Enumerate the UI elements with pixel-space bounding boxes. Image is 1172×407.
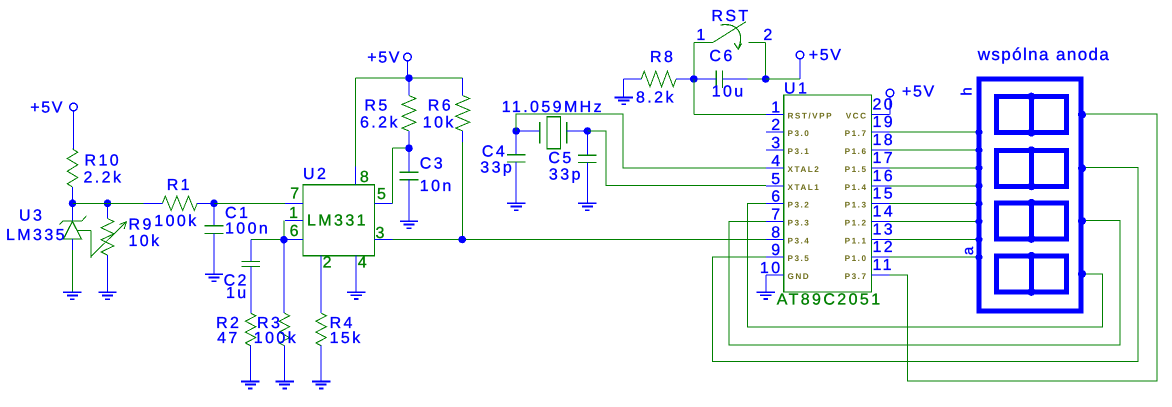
display digit 2 — [996, 146, 1086, 190]
op-amp U1 AT89C2051 box — [777, 81, 883, 309]
ground (C3) — [400, 221, 418, 228]
node junction C6 right — [762, 75, 770, 83]
svg-text:a: a — [960, 246, 977, 255]
svg-text:8: 8 — [360, 169, 371, 186]
power port +5V (left) — [30, 100, 77, 117]
node junction R10/R9/U3 — [69, 200, 112, 208]
svg-text:P3.3: P3.3 — [788, 219, 811, 228]
pin 8 U1 (P3.4) — [766, 224, 811, 245]
capacitor C1 — [205, 205, 271, 238]
display digit 4 — [996, 252, 1086, 296]
wire zener anode to ground — [71, 239, 73, 292]
resistor R4 — [316, 313, 363, 347]
svg-text:+5V: +5V — [30, 100, 64, 117]
switch RST — [694, 8, 775, 79]
wire R1 to node C1 — [197, 202, 214, 204]
svg-text:RST/VPP: RST/VPP — [788, 111, 834, 120]
wire P3.7 to digit1 common — [872, 114, 1158, 381]
svg-text:33p: 33p — [549, 167, 583, 184]
node segment dot — [976, 254, 983, 261]
svg-text:19: 19 — [873, 114, 896, 131]
svg-text:P1.0: P1.0 — [845, 254, 868, 263]
pin 4 U2 — [356, 255, 369, 293]
wire pin8 to +5V rail — [355, 78, 357, 167]
svg-text:3: 3 — [376, 225, 387, 242]
wire R9-node to R1 — [144, 202, 163, 204]
svg-text:R6: R6 — [428, 98, 453, 115]
resistor R10 — [67, 149, 123, 187]
svg-text:6.2k: 6.2k — [360, 114, 400, 131]
node segment dot — [976, 147, 983, 154]
svg-text:U1: U1 — [784, 81, 809, 98]
wire pin1 to node6 — [283, 221, 285, 240]
display digit 1 — [996, 93, 1086, 137]
svg-text:U3: U3 — [19, 208, 44, 225]
wire C3 top — [408, 148, 410, 172]
pin 7 U1 (P3.3) — [766, 207, 811, 228]
svg-text:20: 20 — [873, 96, 896, 113]
display digit 3 — [996, 199, 1086, 243]
node segment dot — [976, 182, 983, 189]
wire R8 to node — [676, 78, 694, 80]
svg-text:10n: 10n — [420, 178, 454, 195]
wire node6 to C2 — [251, 240, 284, 262]
svg-text:P1.6: P1.6 — [845, 147, 868, 156]
wire P1.4 to display — [889, 185, 979, 187]
pin 15 U1 (P1.3) — [845, 186, 895, 210]
svg-text:P3.1: P3.1 — [788, 147, 811, 156]
svg-text:wspólna anoda: wspólna anoda — [977, 45, 1111, 64]
svg-text:LM331: LM331 — [307, 213, 368, 230]
svg-text:10k: 10k — [423, 114, 456, 131]
svg-text:R5: R5 — [364, 98, 389, 115]
svg-text:P1.2: P1.2 — [845, 219, 868, 228]
wire RST net to U1 pin1 — [694, 79, 766, 114]
pin 6 U2 — [284, 223, 303, 240]
svg-text:h: h — [959, 87, 976, 95]
svg-text:100k: 100k — [154, 213, 198, 230]
wire C3 to ground — [408, 180, 410, 222]
ground (C4) — [507, 203, 525, 210]
crystal Y1 11.059MHz — [502, 99, 604, 149]
svg-text:100n: 100n — [225, 221, 270, 238]
node junction rail — [405, 74, 413, 82]
node segment dot — [976, 218, 983, 225]
ground (R2) — [241, 382, 259, 389]
wire P1.3 to display — [889, 203, 979, 205]
node junction crystal left — [512, 127, 520, 135]
node segment dot — [976, 200, 983, 207]
svg-text:LM335: LM335 — [6, 227, 67, 244]
node segment dot — [976, 165, 983, 172]
svg-text:2: 2 — [771, 117, 782, 134]
node junction C6 left — [690, 75, 698, 83]
pin 2 U1 (P3.0) — [766, 117, 811, 138]
svg-text:7: 7 — [290, 186, 301, 203]
wire R4 to ground — [320, 346, 322, 382]
ground (R3) — [275, 382, 293, 389]
wire +5V to C6 net — [766, 59, 800, 79]
ground (R4) — [312, 382, 330, 389]
svg-text:15k: 15k — [330, 330, 363, 347]
ground (U3) — [63, 292, 81, 299]
pin 2 U2 — [321, 255, 334, 274]
svg-text:7: 7 — [771, 207, 782, 224]
svg-text:8: 8 — [771, 224, 782, 241]
node segment dot — [976, 129, 983, 136]
svg-text:9: 9 — [771, 242, 782, 259]
svg-text:+5V: +5V — [902, 84, 936, 101]
pin 16 U1 (P1.4) — [845, 168, 895, 192]
pin 9 U1 (P3.5) — [766, 242, 811, 263]
wire pin10 GND elbow — [765, 275, 767, 292]
svg-text:P1.1: P1.1 — [845, 236, 868, 245]
svg-text:R8: R8 — [650, 49, 675, 66]
svg-text:10u: 10u — [712, 84, 746, 101]
pin 20 U1 (VCC) — [846, 96, 895, 120]
wire R5 to C3 — [408, 131, 410, 148]
wire R2 to ground — [250, 346, 252, 382]
svg-text:18: 18 — [873, 132, 896, 149]
svg-text:+5V: +5V — [367, 50, 401, 67]
svg-text:GND: GND — [788, 272, 811, 281]
pin 12 U1 (P1.0) — [845, 239, 895, 263]
svg-text:6: 6 — [771, 189, 782, 206]
svg-text:11.059MHz: 11.059MHz — [502, 99, 604, 116]
pin 10 U1 (GND) — [760, 260, 810, 281]
svg-text:10k: 10k — [129, 233, 162, 250]
svg-text:C6: C6 — [709, 48, 734, 65]
power port +5V (U1 VCC) — [886, 84, 936, 101]
capacitor C6 — [694, 48, 766, 101]
label a — [960, 246, 977, 255]
svg-text:P3.2: P3.2 — [788, 201, 811, 210]
wire C5 top — [586, 131, 588, 155]
capacitor C2 — [224, 262, 261, 303]
ground (R8) — [615, 97, 633, 104]
node junction crystal right — [584, 127, 592, 135]
svg-text:3: 3 — [771, 135, 782, 152]
svg-text:C3: C3 — [420, 156, 445, 173]
node segment dot — [976, 236, 983, 243]
wire C1 to ground — [213, 234, 215, 275]
pin 6 U1 (P3.2) — [766, 189, 811, 210]
resistor R8 — [636, 49, 676, 107]
capacitor C5 — [548, 150, 596, 183]
svg-text:1: 1 — [771, 99, 782, 116]
wire R10 to node — [72, 187, 74, 203]
svg-text:2: 2 — [323, 255, 334, 272]
pin 4 U1 (XTAL2) — [766, 153, 821, 174]
svg-text:+5V: +5V — [809, 47, 843, 64]
capacitor C4 — [480, 143, 525, 176]
wire P1.1 to display — [889, 238, 979, 240]
wire main node horizontal — [73, 202, 144, 204]
wire +5V rail horizontal — [356, 77, 463, 79]
svg-text:VCC: VCC — [846, 111, 868, 120]
wire R6 to pin3 net — [462, 131, 464, 240]
svg-text:10: 10 — [760, 260, 783, 277]
transistor U3 LM335 (zener temp sensor) — [6, 208, 91, 258]
wire node to R9 — [107, 203, 109, 218]
node junction pin6 — [280, 236, 288, 244]
svg-text:17: 17 — [873, 150, 896, 167]
resistor R6 — [423, 78, 470, 131]
svg-text:XTAL1: XTAL1 — [788, 183, 821, 192]
pin 17 U1 (P1.5) — [845, 150, 895, 174]
svg-text:6: 6 — [290, 223, 301, 240]
wire C4 to ground — [515, 162, 517, 203]
pin 5 U2 — [375, 186, 393, 203]
wire P1.7 to display — [889, 131, 979, 133]
display outer frame (wspolna anoda) — [977, 45, 1111, 311]
wire pin3 to U1 pin8 — [392, 239, 765, 241]
ground (U2 pin4) — [347, 292, 365, 299]
pin 13 U1 (P1.1) — [845, 221, 895, 245]
wire XTAL1 net — [587, 131, 765, 186]
svg-text:P3.0: P3.0 — [788, 129, 811, 138]
svg-text:XTAL2: XTAL2 — [788, 165, 821, 174]
capacitor C3 — [400, 156, 454, 195]
svg-text:11: 11 — [873, 257, 894, 274]
wire pin5 to C3 node — [392, 148, 409, 203]
svg-text:R9: R9 — [129, 217, 154, 234]
wire P3.5 to digit2 common — [712, 168, 1138, 362]
svg-text:15: 15 — [873, 186, 896, 203]
svg-text:U2: U2 — [303, 166, 328, 183]
svg-text:R1: R1 — [167, 177, 192, 194]
svg-text:2.2k: 2.2k — [84, 169, 124, 186]
wire C2 to R2 — [250, 267, 252, 314]
wire node to zener — [72, 203, 74, 221]
wire R3 to ground — [283, 346, 285, 382]
wire C1 top — [213, 203, 215, 226]
svg-text:4: 4 — [358, 255, 369, 272]
svg-text:13: 13 — [873, 221, 896, 238]
svg-text:R10: R10 — [85, 152, 122, 169]
resistor R1 — [154, 177, 198, 230]
pin 3 U1 (P3.1) — [766, 135, 811, 156]
svg-text:C4: C4 — [482, 143, 507, 160]
wire +5V to R10 — [73, 111, 75, 149]
power port +5V (U2) — [367, 50, 411, 67]
ground (C5) — [578, 203, 596, 210]
pin 5 U1 (XTAL1) — [766, 171, 821, 192]
pin 11 U1 (P3.7) — [845, 257, 894, 281]
svg-text:8.2k: 8.2k — [636, 90, 676, 107]
svg-text:AT89C2051: AT89C2051 — [777, 291, 883, 308]
node junction R5/C3/pin5 — [405, 144, 413, 152]
svg-text:5: 5 — [377, 186, 388, 203]
svg-text:P3.7: P3.7 — [845, 272, 868, 281]
svg-text:P1.5: P1.5 — [845, 165, 868, 174]
svg-text:P3.5: P3.5 — [788, 254, 811, 263]
svg-text:14: 14 — [873, 204, 896, 221]
pin 18 U1 (P1.6) — [845, 132, 895, 156]
wire XTAL2 net — [516, 114, 766, 168]
svg-text:33p: 33p — [480, 160, 514, 177]
wire R9 to ground — [107, 255, 109, 292]
wire P3.3 to digit3 common — [729, 221, 1120, 345]
resistor R3 — [254, 313, 298, 347]
resistor R9 (pot 10k) — [91, 217, 162, 257]
wire P1.0 to display — [889, 256, 979, 258]
label h — [959, 87, 976, 95]
svg-text:RST: RST — [711, 8, 750, 25]
svg-text:1: 1 — [696, 27, 707, 44]
svg-text:P1.4: P1.4 — [845, 183, 868, 192]
svg-text:4: 4 — [771, 153, 782, 170]
wire node6 to R3 — [283, 240, 285, 313]
wire node to U2 pin7 — [214, 202, 285, 204]
resistor R5 — [360, 78, 416, 131]
wire U2 pin2 to R4 — [320, 256, 322, 313]
pin 14 U1 (P1.2) — [845, 204, 895, 228]
node junction R6/pin3 — [458, 236, 466, 244]
wire C4 top — [515, 131, 517, 155]
ground (U1 GND) — [757, 292, 775, 299]
op-amp U2 LM331 box — [303, 166, 375, 256]
wire P3.2 to digit4 common — [748, 204, 1103, 328]
svg-text:P1.3: P1.3 — [845, 201, 868, 210]
svg-text:2: 2 — [763, 27, 774, 44]
svg-text:47: 47 — [217, 330, 240, 347]
svg-text:12: 12 — [873, 239, 896, 256]
pin 7 U2 — [285, 186, 303, 204]
wire C5 to ground — [586, 163, 588, 204]
svg-text:100k: 100k — [254, 330, 298, 347]
power port +5V (RST) — [796, 47, 842, 64]
node junction R1/C1 — [210, 200, 218, 208]
pin 1 U1 (RST/VPP) — [766, 99, 833, 120]
svg-text:C1: C1 — [225, 205, 250, 222]
svg-text:C5: C5 — [548, 150, 573, 167]
wire +5V to rail — [407, 61, 409, 78]
wire VCC to pin20 — [889, 97, 891, 115]
svg-text:1: 1 — [289, 205, 300, 222]
svg-text:5: 5 — [771, 171, 782, 188]
wire P1.2 to display — [889, 221, 979, 223]
pin 8 U2 — [356, 167, 372, 187]
wire P1.6 to display — [889, 149, 979, 151]
pin 19 U1 (P1.7) — [845, 114, 895, 138]
svg-text:1u: 1u — [226, 285, 249, 302]
svg-text:P3.4: P3.4 — [788, 236, 811, 245]
pin 3 U2 — [375, 225, 393, 242]
svg-text:16: 16 — [873, 168, 896, 185]
resistor R2 — [216, 313, 256, 347]
ground (R9) — [98, 292, 116, 299]
ground (C1) — [205, 274, 223, 281]
wire R8 left to ground — [624, 79, 642, 97]
wire P1.5 to display — [889, 167, 979, 169]
pin 1 U2 — [285, 205, 303, 222]
svg-text:P1.7: P1.7 — [845, 129, 868, 138]
